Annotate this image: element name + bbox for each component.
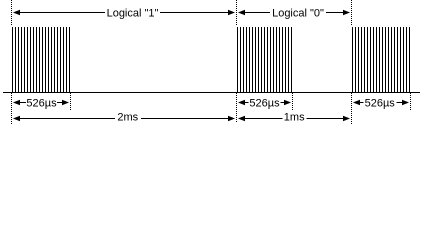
text gap masks [26, 5, 397, 123]
arrowhead Logical "0" left [238, 10, 245, 16]
arrowhead 1ms left [238, 116, 245, 122]
arrowhead 526us #1 left [13, 100, 20, 106]
svg-text:1ms: 1ms [284, 111, 305, 123]
dotted boundary line at x=292 (end of burst 2) [292, 93, 294, 110]
dimension shaft Logical "0" [243, 12, 345, 14]
dimension shaft 526us #1 [18, 102, 64, 104]
arrowhead Logical "0" right [343, 10, 350, 16]
dotted boundary line at x=236 (start of burst 2, logical 1/0 divide) [236, 0, 238, 122]
carrier pulse burst 2 (19 pulses) [238, 27, 292, 92]
dimension shaft Logical "1" [18, 12, 230, 14]
dotted boundary line at x=410 (end of burst 3) [410, 93, 412, 110]
svg-text:Logical "0": Logical "0" [272, 8, 324, 20]
arrowhead 2ms left [13, 116, 20, 122]
arrowhead 526us #3 right [402, 100, 409, 106]
arrowhead 526us #1 right [62, 100, 69, 106]
carrier pulse burst 1 (20 pulses) [13, 27, 70, 92]
dotted boundary line at x=351 (start of burst 3, end of logical 0) [351, 0, 353, 125]
arrowheads [13, 10, 409, 122]
arrowhead 1ms right [343, 116, 350, 122]
dotted boundary line at x=70 (end of burst 1, 526us limit) [70, 93, 72, 110]
arrowhead Logical "1" right [228, 10, 235, 16]
svg-text:526µs: 526µs [365, 98, 396, 110]
dotted boundary line at x=11 (full height, start of burst 1) [11, 0, 13, 125]
arrowhead Logical "1" left [13, 10, 20, 16]
arrowhead 526us #3 left [353, 100, 360, 106]
svg-text:Logical "1": Logical "1" [107, 8, 159, 20]
dimension shaft 1ms [243, 118, 345, 120]
arrowhead 526us #2 right [284, 100, 291, 106]
signal baseline [3, 92, 420, 94]
arrowhead 526us #2 left [238, 100, 245, 106]
dimension shaft 526us #3 [358, 102, 404, 104]
arrowhead 2ms right [228, 116, 235, 122]
dimension shaft 526us #2 [243, 102, 286, 104]
svg-text:2ms: 2ms [117, 111, 138, 123]
svg-text:526µs: 526µs [249, 98, 280, 110]
carrier pulse burst 3 (20 pulses) [353, 27, 410, 92]
dimension shaft 2ms [18, 118, 230, 120]
svg-text:526µs: 526µs [26, 98, 57, 110]
